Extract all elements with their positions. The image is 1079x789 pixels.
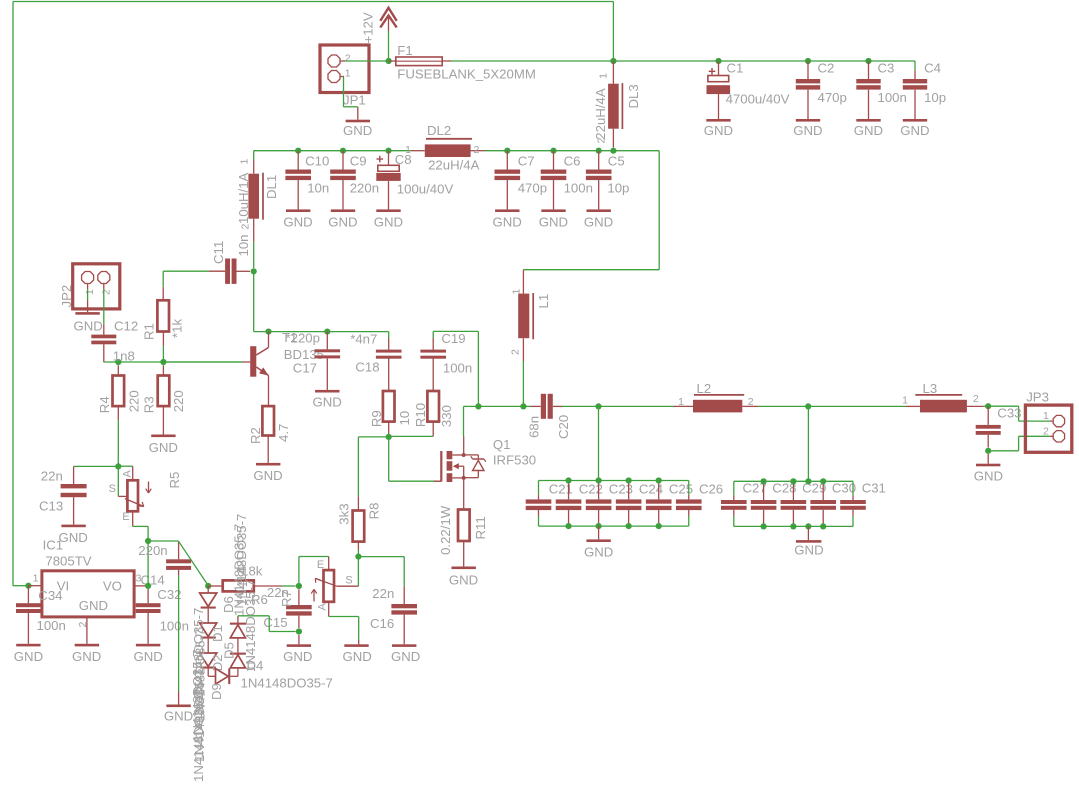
resistor R6 (208, 580, 295, 591)
wire net +12V left frame (13, 2, 28, 586)
connector JP1 body (320, 45, 369, 93)
label R10 (413, 403, 428, 427)
svg-text:GND: GND (59, 530, 88, 545)
label R7 (279, 590, 294, 607)
svg-text:10n: 10n (307, 181, 329, 196)
label C34 (38, 588, 62, 603)
junction bank2 feed (805, 403, 811, 409)
ground GND C10 (283, 209, 312, 229)
svg-text:2: 2 (101, 289, 113, 295)
wire R8 node to C16 (358, 557, 404, 604)
wire base net (104, 361, 243, 363)
label JP1 (343, 93, 366, 108)
label 220n C14 (138, 543, 167, 558)
ground GND C17 (313, 390, 342, 410)
svg-text:C5: C5 (608, 153, 625, 168)
junction C1 (715, 58, 721, 64)
wire to C4 (914, 61, 916, 70)
capacitor C4 (903, 70, 927, 119)
svg-text:DL2: DL2 (427, 123, 451, 138)
ground GND C13 (59, 525, 88, 545)
MOSFET Q1 substrate arrow (453, 463, 464, 478)
wire R11 bottom (463, 541, 465, 567)
transistor T1 emitter (256, 367, 268, 406)
potentiometer R7 wiper line (315, 578, 337, 586)
inductor L1 (518, 270, 533, 407)
svg-text:GND: GND (374, 214, 403, 229)
junction R4 bottom (115, 463, 121, 469)
svg-text:L2: L2 (697, 381, 712, 396)
ground GND R11 (449, 567, 478, 588)
label C30 (832, 481, 856, 496)
svg-text:GND: GND (900, 123, 929, 138)
label 22uH/4A DL3 (593, 88, 608, 140)
junction bank2 bottom (761, 523, 767, 529)
ground GND bank2 (794, 526, 823, 557)
resistor R9 (383, 391, 395, 434)
label *220p (286, 330, 320, 345)
label 330 R10 (439, 405, 454, 427)
wire DL1 to C11 node (253, 242, 255, 268)
label D2 (210, 654, 225, 671)
svg-text:220: 220 (171, 390, 186, 412)
capacitor C10 (285, 151, 311, 210)
svg-text:R11: R11 (473, 516, 488, 539)
label R2 (248, 427, 263, 444)
wire +12V to node (388, 31, 390, 61)
label C17 (293, 361, 317, 376)
svg-text:C15: C15 (263, 615, 287, 630)
capacitor C33 (976, 406, 1001, 447)
svg-text:GND: GND (14, 649, 43, 664)
ground GND C9 (328, 209, 357, 229)
label JP2 pin 1 (84, 289, 96, 295)
label DL3 pin 1 (597, 73, 609, 79)
junction IC1 pin3 (145, 583, 151, 589)
svg-text:F1: F1 (397, 43, 412, 58)
label C21 (549, 482, 573, 497)
label 10p C5 (607, 181, 629, 196)
svg-text:100n: 100n (160, 619, 189, 634)
wire row2 right segment (485, 150, 660, 152)
svg-text:1: 1 (345, 68, 351, 80)
svg-text:C22: C22 (579, 482, 603, 497)
label C16 (370, 616, 394, 631)
svg-text:*4n7: *4n7 (350, 332, 377, 347)
wire D4 to D5 (237, 638, 239, 653)
svg-text:R3: R3 (142, 396, 157, 413)
connector JP2 body (73, 264, 120, 309)
svg-text:22n: 22n (372, 586, 394, 601)
svg-text:100n: 100n (37, 618, 66, 633)
junction C9 (340, 148, 346, 154)
label 1N4148DO35-7 b (193, 629, 208, 721)
svg-text:C1: C1 (727, 61, 744, 76)
svg-text:C11: C11 (211, 241, 226, 264)
label L1 pin 2 (510, 349, 522, 355)
capacitor C16 (391, 604, 417, 644)
svg-text:3k3: 3k3 (336, 503, 351, 524)
capacitor C9 (330, 151, 356, 210)
MOSFET Q1 channel bars (447, 451, 453, 482)
label 4700u/40V (726, 92, 790, 107)
label 220 R4 (127, 390, 142, 412)
potentiometer R7 body (324, 570, 335, 602)
junction C17 (324, 329, 330, 335)
wire F1 to C4 (451, 60, 915, 62)
label R4 (97, 396, 112, 413)
svg-text:R1: R1 (142, 323, 157, 340)
label 220 R3 (171, 390, 186, 412)
wire drain node to L1 node (478, 405, 523, 407)
svg-text:4.7: 4.7 (276, 424, 291, 442)
label C12 (114, 319, 138, 334)
svg-text:DL3: DL3 (626, 84, 641, 108)
connector JP3 pin 1 pad (1053, 415, 1064, 426)
svg-text:1: 1 (1043, 410, 1049, 422)
capacitor C22 (556, 481, 582, 527)
potentiometer R5 wiper line (125, 499, 144, 507)
label C13 (39, 498, 63, 513)
wire JP1 pin2 to junction (340, 60, 388, 62)
label *4n7 (350, 332, 377, 347)
label GND IC1 (79, 598, 108, 613)
svg-text:1: 1 (239, 159, 251, 165)
capacitor C31 (840, 481, 866, 526)
wire L3 to JP3 pin1 (984, 406, 1053, 421)
label FUSEBLANK_5X20MM (397, 67, 536, 82)
connector JP2 pin 2 pad (98, 272, 110, 284)
label D1 (210, 625, 225, 642)
capacitor C25 (646, 481, 672, 527)
svg-text:100u/40V: 100u/40V (397, 182, 454, 197)
label C7 (518, 153, 535, 168)
svg-text:C32: C32 (157, 587, 181, 602)
wire R5 wiper (118, 466, 127, 496)
label C31 (862, 481, 886, 496)
svg-text:JP3: JP3 (1026, 389, 1049, 404)
wire diagonal C14 to D6 (179, 541, 209, 585)
diode D2 (200, 653, 217, 669)
ground GND R2 (253, 463, 282, 483)
wire R8 bottom (357, 542, 359, 557)
label DL3 (626, 84, 641, 108)
wire drain (464, 406, 479, 436)
svg-text:1: 1 (678, 396, 684, 408)
junction gate node (386, 434, 392, 440)
label L3 (923, 381, 938, 396)
inductor L2 (674, 395, 758, 413)
label JP2 (59, 285, 74, 308)
svg-text:GND: GND (584, 545, 613, 560)
label C2 (818, 60, 835, 75)
svg-text:R4: R4 (97, 396, 112, 413)
junction L1 bottom (520, 403, 526, 409)
label JP2 pin 2 (101, 289, 113, 295)
inductor DL3 (608, 61, 622, 147)
label 10n C10 (307, 181, 329, 196)
svg-text:R5: R5 (167, 472, 182, 489)
resistor R8 (353, 511, 365, 542)
wire node to IC1 pin3 (147, 541, 149, 586)
label R8 (367, 503, 382, 520)
inductor DL2 (411, 139, 485, 157)
svg-text:C3: C3 (878, 60, 895, 75)
label 10p C4 (924, 90, 946, 105)
capacitor C24 (616, 481, 642, 527)
wire C33 to JP3 pin2 (990, 436, 1053, 451)
svg-text:C14: C14 (141, 573, 165, 588)
transistor T1 base bar (242, 346, 256, 377)
svg-text:GND: GND (164, 708, 193, 723)
svg-text:R8: R8 (367, 503, 382, 520)
label JP3 pin 2 (1043, 426, 1049, 438)
wire node to R5 (118, 466, 132, 480)
label DL2 pin 2 (474, 144, 480, 156)
capacitor C20 (523, 394, 562, 419)
svg-text:22uH/4A: 22uH/4A (428, 157, 480, 172)
label JP3 (1026, 389, 1049, 404)
capacitor C26 (676, 481, 702, 527)
potentiometer R5 body (127, 480, 138, 511)
label +12V (361, 12, 376, 43)
svg-text:2: 2 (345, 53, 351, 65)
label *1k (170, 319, 185, 338)
wire C11 down to base net (254, 271, 389, 331)
svg-text:GND: GND (704, 123, 733, 138)
svg-text:GND: GND (974, 468, 1003, 483)
svg-text:GND: GND (854, 123, 883, 138)
label 470p C7 (518, 181, 547, 196)
capacitor C1 (707, 61, 731, 119)
ground GND C15 (283, 635, 312, 664)
svg-text:10n: 10n (236, 234, 251, 256)
svg-text:GND: GND (343, 649, 372, 664)
svg-text:C31: C31 (862, 481, 886, 496)
junction DL3 bottom (610, 148, 616, 154)
junction C5 (596, 148, 602, 154)
junction bank1 bottom (596, 523, 602, 529)
junction bank1 top (565, 477, 571, 483)
svg-text:1N4148DO35-7: 1N4148DO35-7 (191, 690, 206, 782)
svg-text:DL1: DL1 (264, 175, 279, 199)
capacitor C29 (781, 481, 807, 526)
label R3 (142, 396, 157, 413)
ground GND C2 (793, 119, 822, 138)
label D9 (209, 683, 224, 700)
svg-text:2: 2 (1043, 426, 1049, 438)
label 100n C34 (37, 618, 66, 633)
svg-text:GND: GND (343, 123, 372, 138)
svg-text:JP2: JP2 (59, 285, 74, 308)
label 1n8 (113, 349, 135, 364)
svg-text:D5: D5 (222, 642, 237, 659)
capacitor C8 (376, 151, 400, 210)
label L3 pin 1 (902, 394, 908, 406)
junction bank1 top (596, 477, 602, 483)
svg-text:C20: C20 (556, 415, 571, 439)
svg-text:R10: R10 (413, 403, 428, 427)
junction DL3 top (610, 58, 616, 64)
svg-text:GND: GND (793, 123, 822, 138)
svg-text:GND: GND (313, 395, 342, 410)
junction IC1 pin1 (25, 583, 31, 589)
label D5 (222, 642, 237, 659)
label R6 (251, 592, 268, 607)
label C4 (924, 60, 941, 75)
svg-text:GND: GND (283, 214, 312, 229)
label IRF530 (493, 452, 536, 467)
wire bank2 bottom rail (734, 525, 853, 527)
junction bank2 top (761, 478, 767, 484)
junction C33 top (985, 403, 991, 409)
wire bank1 bottom rail (539, 525, 689, 527)
label 220n C9 (350, 181, 379, 196)
capacitor C7 (495, 151, 521, 210)
label R11 (473, 516, 488, 539)
capacitor C15 (286, 589, 312, 628)
svg-text:C26: C26 (699, 482, 723, 497)
capacitor C28 (751, 481, 777, 526)
svg-text:1N4148DO35-7: 1N4148DO35-7 (232, 524, 247, 616)
label E R5 (122, 511, 129, 523)
potentiometer R7 wiper wire (337, 557, 359, 587)
svg-text:2: 2 (748, 396, 754, 408)
svg-text:10uH/1A: 10uH/1A (236, 172, 251, 224)
svg-text:GND: GND (794, 543, 823, 558)
junction drain node (475, 403, 481, 409)
junction R4 (115, 359, 121, 365)
svg-text:1: 1 (511, 289, 523, 295)
label C23 (609, 482, 633, 497)
ground GND C33 (974, 454, 1003, 484)
label 0.22/1W (438, 505, 453, 555)
svg-text:C9: C9 (350, 153, 367, 168)
wire R9 bottom (388, 434, 390, 437)
connector JP1 pin 1 pad (328, 71, 340, 83)
label E R7 (317, 559, 324, 571)
label JP3 pin 1 (1043, 410, 1049, 422)
label R5 (167, 472, 182, 489)
svg-text:C13: C13 (39, 498, 63, 513)
wire C15 top to R7 (299, 557, 329, 587)
label IC1 (43, 538, 64, 553)
svg-text:GND: GND (539, 214, 568, 229)
diode D4 (230, 653, 246, 668)
MOSFET Q1 source (452, 476, 465, 510)
label C27 (743, 481, 767, 496)
junction C3 (865, 58, 871, 64)
capacitor C3 (856, 61, 880, 119)
wire C19 to drain node (477, 331, 479, 406)
IC IC1 7805TV body (28, 571, 134, 617)
svg-text:C16: C16 (370, 616, 394, 631)
ground GND C8 (374, 209, 403, 229)
junction bank2 bottom (790, 523, 796, 529)
wire JP2 pin2 to C12 (103, 284, 105, 335)
label 1N4148DO35-7 D4s (232, 524, 247, 616)
label C26 (699, 482, 723, 497)
label L2 pin 2 (748, 396, 754, 408)
wire D5 top (238, 616, 296, 632)
label F1 (397, 43, 412, 58)
wire bank2 top rail (734, 480, 853, 482)
wire R2 bottom (267, 436, 269, 463)
svg-text:22uH/4A: 22uH/4A (593, 88, 608, 140)
label 100u/40V (397, 182, 454, 197)
resistor R3 (158, 365, 170, 434)
svg-text:7805TV: 7805TV (45, 553, 91, 568)
label 1N4148DO35-7 d (192, 670, 207, 762)
svg-text:GND: GND (391, 649, 420, 664)
svg-text:C10: C10 (305, 153, 329, 168)
potentiometer R5 arrow (146, 482, 152, 494)
svg-text:2: 2 (510, 349, 522, 355)
label Q1 (493, 437, 511, 452)
connector JP3 pin 2 pad (1053, 431, 1064, 442)
svg-text:C17: C17 (293, 361, 317, 376)
svg-text:220n: 220n (350, 181, 379, 196)
svg-text:VO: VO (103, 578, 122, 593)
capacitor C27 (721, 481, 747, 526)
svg-text:10: 10 (397, 411, 412, 426)
svg-text:S: S (109, 483, 116, 495)
junction bank2 bottom gnd (805, 523, 811, 529)
svg-text:A: A (121, 470, 133, 478)
svg-text:C8: C8 (395, 152, 412, 167)
junction bank1 feed (595, 403, 601, 409)
svg-text:GND: GND (584, 214, 613, 229)
capacitor C6 (541, 151, 567, 210)
capacitor C30 (810, 481, 836, 526)
junction +12V/F1 (386, 58, 392, 64)
resistor R10 (427, 391, 439, 436)
MOSFET Q1 body diode (464, 455, 486, 478)
label C10 (305, 153, 329, 168)
svg-text:GND: GND (149, 440, 178, 455)
svg-text:10p: 10p (607, 181, 629, 196)
ground GND IC1 (72, 644, 101, 664)
junction bank1 top (656, 477, 662, 483)
svg-text:C25: C25 (669, 482, 693, 497)
svg-text:*1k: *1k (170, 319, 185, 338)
wire row2 left segment (254, 150, 411, 152)
label 3k3 (336, 503, 351, 524)
junction C10 (295, 148, 301, 154)
label R9 (369, 410, 384, 427)
svg-text:1: 1 (33, 573, 39, 585)
label 7805TV (45, 553, 91, 568)
label JP1 pin 2 (345, 53, 351, 65)
potentiometer R7 arrow (311, 589, 317, 601)
junction R3 (160, 359, 166, 365)
capacitor C5 (586, 151, 612, 210)
junction C6 (550, 148, 556, 154)
wire D2 to D9 (208, 669, 215, 677)
supply +12V arrow (380, 8, 396, 31)
wire node to C13 (74, 465, 119, 467)
svg-text:C12: C12 (114, 319, 138, 334)
IC IC1 pin 2 lead (86, 617, 88, 644)
svg-text:D1: D1 (210, 625, 225, 642)
svg-text:330: 330 (439, 405, 454, 427)
ground GND R3 (149, 435, 178, 455)
diode D5 (230, 623, 246, 638)
resistor R2 (262, 406, 274, 435)
label 1N4148DO35-7 a (191, 608, 206, 700)
ground GND C16 (391, 644, 420, 664)
ground GND JP2 (74, 284, 103, 334)
